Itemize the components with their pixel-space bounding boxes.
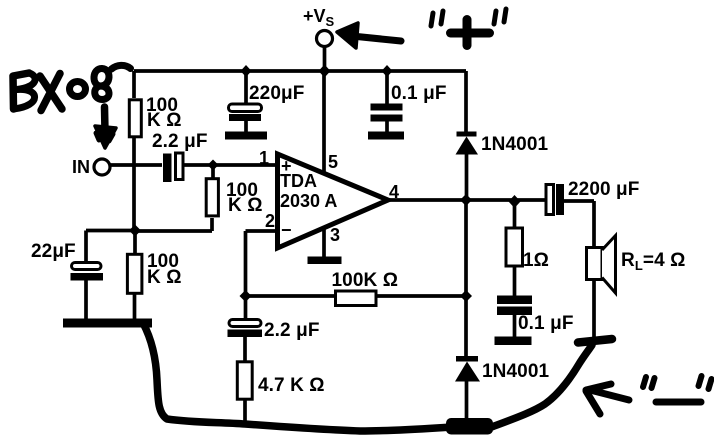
- terminal +Vs: [317, 31, 333, 47]
- svg-text:RL=4 Ω: RL=4 Ω: [621, 250, 685, 273]
- node junction dots: [129, 65, 521, 303]
- wire left drop to R1: [132, 71, 136, 98]
- resistor R1 100K top-left: [129, 100, 141, 137]
- wire C2.2uF to R5: [243, 337, 247, 361]
- svg-text:2030 A: 2030 A: [280, 191, 337, 211]
- wire C0.1 to ground: [513, 314, 517, 337]
- ground bar under 220uF: [225, 132, 267, 140]
- wire J1 to R4 top: [133, 231, 137, 253]
- node J4 output: [460, 194, 472, 206]
- node 220uF rail: [241, 65, 252, 77]
- speaker RL: [587, 248, 603, 280]
- svg-text:5: 5: [328, 152, 338, 172]
- node J3 feedback: [240, 290, 252, 302]
- svg-text:0.1 μF: 0.1 μF: [518, 313, 574, 334]
- svg-text:3: 3: [330, 225, 340, 245]
- svg-text:1N4001: 1N4001: [481, 134, 548, 155]
- capacitor C2 220uF: [229, 104, 262, 112]
- node J6 feedback-right: [460, 290, 472, 302]
- handwritten quote-plus-quote: [431, 11, 443, 26]
- wire C22uF to ground bar: [84, 280, 88, 320]
- node +Vs rail: [319, 65, 331, 78]
- wire J3 to C2.2uF: [244, 296, 248, 320]
- wire pin 3 to ground: [322, 228, 326, 258]
- resistor R6 1ohm: [506, 228, 523, 266]
- resistor R3 100K mid: [206, 179, 218, 216]
- handwritten speaker ground bar: [578, 339, 612, 343]
- resistor R5 4.7K: [237, 362, 252, 399]
- wire J1 to C22uF: [86, 231, 135, 264]
- wire 220uF branch: [244, 71, 248, 132]
- wire 0.1uF branch: [385, 71, 389, 132]
- ground bar under 0.1uF: [368, 132, 404, 140]
- wire D1 column: [464, 71, 468, 200]
- capacitor C7 0.1uF bottom: [497, 296, 532, 305]
- wire output column down through J6 to D2: [464, 200, 468, 423]
- ground bar bottom-left: [63, 319, 152, 328]
- wire node A to R3 top: [211, 165, 215, 178]
- svg-text:TDA: TDA: [280, 171, 317, 191]
- svg-text:100K Ω: 100K Ω: [332, 270, 399, 291]
- handwriting "d" of BXod: [94, 68, 109, 99]
- wire speaker to ground: [592, 279, 596, 340]
- resistor R4 100K bottom-left: [127, 254, 141, 293]
- capacitor C1 2.2uF input: [163, 154, 172, 183]
- handwritten bottom ground line: [143, 323, 452, 431]
- node A input bias: [208, 160, 219, 171]
- wire +Vs drop: [323, 46, 327, 71]
- handwriting "o" of BXod: [70, 82, 86, 97]
- capacitor C4 0.1uF top: [371, 104, 403, 111]
- svg-text:2: 2: [265, 211, 275, 231]
- capacitor C6 2200uF: [546, 185, 554, 215]
- wire R4 bottom to ground bar: [133, 294, 137, 320]
- wire 2200uF out to speaker: [564, 201, 594, 248]
- wire pin 2 left and down: [246, 231, 279, 296]
- handwritten minus arrow: [590, 390, 629, 400]
- wire IN to C1: [110, 163, 162, 167]
- svg-text:220μF: 220μF: [249, 83, 304, 104]
- svg-text:K Ω: K Ω: [147, 110, 182, 131]
- svg-text:1N4001: 1N4001: [482, 361, 549, 382]
- node 0.1uF rail: [382, 65, 393, 77]
- svg-text:1Ω: 1Ω: [523, 250, 549, 271]
- ground blob at D2: [447, 419, 492, 434]
- wire J5 to R1ohm: [513, 200, 517, 228]
- resistor R2 100K feedback: [336, 291, 377, 306]
- wire output pin 4: [388, 198, 546, 202]
- diode D1 1N4001: [457, 132, 477, 137]
- node J1: [129, 225, 141, 237]
- terminal IN: [94, 159, 110, 175]
- wire feedback right: [376, 294, 466, 298]
- op-amp U1 TDA2030A: [278, 154, 389, 248]
- svg-text:IN: IN: [72, 157, 90, 177]
- wire R3 bottom to J1: [135, 218, 212, 231]
- svg-text:1: 1: [259, 148, 269, 168]
- svg-text:2.2 μF: 2.2 μF: [264, 320, 320, 341]
- handwriting stroke d to rail: [112, 65, 131, 69]
- wire top rail: [134, 69, 466, 73]
- svg-text:0.1 μF: 0.1 μF: [391, 83, 447, 104]
- capacitor C3 22uF: [72, 263, 102, 270]
- node J5 output-1ohm: [509, 195, 521, 208]
- capacitor C5 2.2uF: [229, 320, 261, 327]
- svg-text:−: −: [281, 220, 292, 240]
- wire R5 to bottom rail: [243, 400, 247, 424]
- svg-text:4.7 K Ω: 4.7 K Ω: [258, 375, 325, 396]
- handwritten arrow at +Vs: [352, 36, 401, 41]
- wire C1 to pin 1: [184, 163, 278, 167]
- svg-text:K Ω: K Ω: [228, 195, 263, 216]
- svg-text:+VS: +VS: [303, 6, 335, 29]
- handwriting "B" of BXod: [13, 73, 29, 109]
- ground bar under C7: [495, 337, 532, 346]
- handwritten quote-minus-quote: [643, 377, 655, 388]
- svg-text:K Ω: K Ω: [147, 267, 182, 288]
- svg-text:4: 4: [389, 182, 399, 202]
- svg-text:2.2 μF: 2.2 μF: [152, 131, 208, 152]
- ground at pin 3: [308, 257, 342, 265]
- svg-text:22μF: 22μF: [31, 241, 76, 262]
- wire R1ohm to C0.1: [513, 267, 517, 296]
- wire R1 to IN line and down to node J1: [132, 138, 136, 231]
- svg-text:2200 μF: 2200 μF: [568, 179, 639, 200]
- handwritten down arrow: [101, 107, 109, 132]
- wire pin 5: [322, 71, 326, 174]
- wire feedback left: [246, 294, 337, 298]
- diode D2 1N4001: [456, 356, 478, 362]
- handwriting "X" of BXod: [40, 74, 62, 111]
